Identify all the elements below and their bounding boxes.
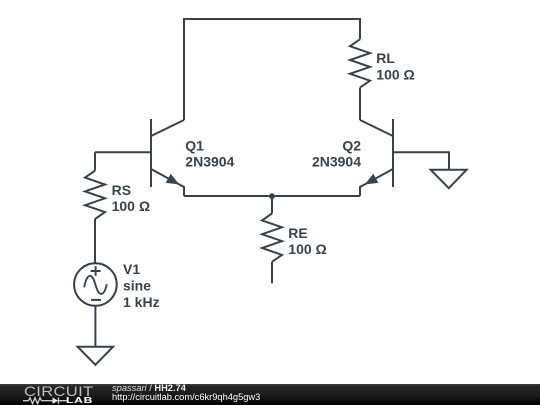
- Q1 emitter lead: [151, 169, 184, 196]
- wire RE top lead: [271, 196, 273, 214]
- logo wire right: [59, 399, 68, 401]
- Q2 emitter arrow: [365, 174, 379, 185]
- wire RS top lead from Q1 base: [94, 152, 96, 170]
- Q1 collector lead: [151, 120, 184, 136]
- logo wire left: [23, 399, 29, 401]
- wire RE bottom lead (open end): [271, 262, 273, 284]
- svg-text:V1: V1: [123, 261, 140, 277]
- transistor Q2 bar: [392, 119, 394, 187]
- svg-text:sine: sine: [123, 278, 151, 294]
- Q1 base lead: [95, 151, 151, 153]
- ground at Q2 base: [431, 170, 467, 189]
- transistor Q1 bar: [150, 119, 152, 187]
- Q1 emitter arrow: [166, 174, 180, 185]
- V1 sine symbol: [84, 276, 107, 294]
- ground at V1: [78, 347, 114, 365]
- logo diode bar: [58, 397, 60, 403]
- wire RL bottom lead to Q2 collector: [359, 88, 361, 120]
- svg-text:Q2: Q2: [342, 137, 361, 153]
- svg-text:Q1: Q1: [185, 137, 204, 153]
- logo wire middle: [42, 399, 53, 401]
- svg-text:100 Ω: 100 Ω: [376, 66, 414, 82]
- svg-text:100 Ω: 100 Ω: [288, 241, 326, 257]
- svg-text:RE: RE: [288, 225, 307, 241]
- wire top rail from Q1 collector to RL top: [184, 19, 360, 120]
- wire V1 bottom lead to ground: [94, 306, 96, 347]
- V1 minus sign: [91, 299, 101, 301]
- svg-text:1 kHz: 1 kHz: [123, 294, 160, 310]
- logo diode: [53, 397, 59, 403]
- V1 plus sign: [91, 266, 101, 276]
- resistor RE: [262, 214, 282, 262]
- CircuitLab logo wordmark CIRCUIT: [24, 383, 93, 399]
- resistor RS: [85, 171, 105, 219]
- voltage source V1 circle: [74, 263, 117, 306]
- svg-text:2N3904: 2N3904: [185, 154, 234, 170]
- logo resistor: [29, 397, 42, 403]
- Q2 collector lead: [360, 120, 393, 136]
- circuit URL line: [112, 392, 260, 402]
- svg-text:100 Ω: 100 Ω: [112, 198, 150, 214]
- Q2 emitter lead: [360, 169, 393, 196]
- wire RS bottom lead to V1: [94, 219, 96, 263]
- svg-text:2N3904: 2N3904: [312, 154, 361, 170]
- wire emitter rail: [184, 195, 360, 197]
- resistor RL: [350, 39, 370, 87]
- footer bar: [0, 384, 540, 405]
- junction node at emitter rail and RE: [269, 193, 275, 199]
- svg-text:RL: RL: [376, 50, 395, 66]
- CircuitLab logo schematic squiggle (wire, resistor, diode): [22, 395, 72, 405]
- CircuitLab logo wordmark LAB: [66, 395, 93, 405]
- svg-text:RS: RS: [112, 182, 131, 198]
- author credit line: [112, 383, 186, 393]
- Q2 base lead: [393, 152, 449, 169]
